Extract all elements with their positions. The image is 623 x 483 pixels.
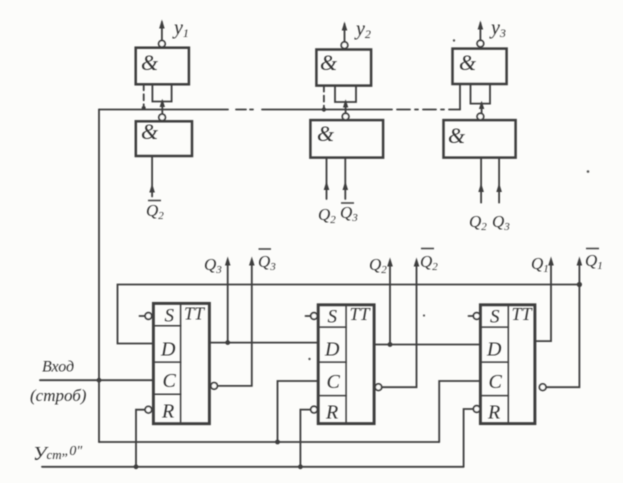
scan speck — [453, 39, 455, 41]
U8 S input bubble and stub — [311, 313, 318, 320]
arrowhead Q1 — [548, 257, 554, 266]
node: Q2 tap junction — [388, 342, 393, 347]
arrowhead y3 — [478, 21, 484, 30]
gate U5 output bubble — [342, 113, 349, 120]
gate U2 lower input notch (staple) — [335, 86, 356, 102]
wire: C input FF2 drop — [278, 381, 319, 442]
gate U1 output bubble — [159, 41, 166, 48]
wire: strobe input to U3 (end of top rail) — [459, 84, 461, 110]
arrowhead y2 — [342, 22, 348, 31]
wire: y2 output arrow — [344, 24, 346, 42]
svg-text:S: S — [165, 306, 175, 327]
svg-text:Q1: Q1 — [585, 251, 603, 272]
arrowhead U5 input b — [343, 181, 349, 190]
gate U6 output bubble — [477, 113, 484, 120]
arrowhead U6 input b — [496, 183, 502, 192]
wire: U5 input Q̄3 — [344, 158, 346, 199]
wire: U6 input Q3 — [498, 158, 500, 203]
svg-text:R: R — [161, 401, 174, 423]
wire: Q3 net (FF1 Q output to FF2 D) — [209, 342, 318, 344]
wire: riser from U5 output into U2 — [345, 102, 347, 114]
svg-text:&: & — [448, 123, 466, 148]
node: strobe tee junction — [97, 378, 102, 383]
scan speck — [423, 314, 425, 316]
flip-flop U9 (TT, outputs Q1) — [480, 305, 535, 424]
arrowhead Q3 — [225, 257, 231, 266]
arrowhead Q̄1 — [577, 257, 583, 266]
node: U2 strobe junction — [322, 107, 326, 111]
wire: Q1 net from FF3 Q output — [535, 261, 551, 341]
wire: left vertical strobe bus — [98, 110, 100, 443]
svg-text:Q3: Q3 — [204, 255, 222, 276]
gate U4 lower AND (&) — [136, 121, 192, 156]
svg-text:Q3: Q3 — [258, 252, 276, 273]
wire: dashed strobe input to U1 — [143, 84, 145, 108]
svg-text:y1: y1 — [172, 17, 189, 40]
node: R2 junction on rail B — [298, 464, 303, 469]
gate U6 lower AND (&) — [444, 120, 516, 158]
U9 inverted output bubble — [539, 384, 546, 391]
svg-text:D: D — [324, 339, 340, 361]
svg-text:y2: y2 — [354, 18, 371, 41]
wire: U4 input Q̄2 — [151, 156, 153, 197]
arrowhead Q̄3 — [249, 257, 255, 266]
arrowhead U5 input a — [324, 181, 330, 190]
wire: dashed strobe input to U2 — [323, 86, 325, 110]
wire: C input FF3 riser from rail A — [439, 381, 480, 442]
svg-text:TT: TT — [184, 304, 206, 324]
node: U1 strobe junction — [142, 106, 146, 110]
wire: R input FF2 drop — [300, 410, 310, 467]
arrowhead into U3 — [479, 101, 484, 109]
node: R1 junction on rail B — [134, 464, 139, 469]
wire: Q3 riser — [227, 261, 229, 343]
arrowhead Q2 — [387, 258, 393, 267]
scan speck — [308, 358, 310, 360]
flip-flop U7 (TT, outputs Q3) — [153, 303, 209, 423]
svg-text:D: D — [486, 339, 502, 361]
svg-text:Вход: Вход — [42, 359, 74, 376]
wire: Q̄3 net from FF1 inverted output — [218, 261, 252, 386]
svg-text:Q3: Q3 — [492, 212, 510, 233]
U7 inverted output bubble — [211, 383, 218, 390]
U9 S input bubble and stub — [473, 313, 480, 320]
svg-text:y3: y3 — [489, 17, 506, 40]
wire: Q2 net (FF2 Q output to FF3 D) — [374, 344, 480, 346]
arrowhead U4 input — [149, 184, 155, 193]
svg-text:Q2: Q2 — [420, 252, 438, 273]
svg-text:C: C — [489, 371, 503, 393]
svg-text:TT: TT — [350, 304, 372, 324]
U9 R input bubble — [473, 406, 480, 413]
svg-text:D: D — [160, 339, 176, 361]
node: C2 junction on rail A — [275, 440, 280, 445]
svg-text:&: & — [141, 50, 159, 75]
node: Q3 tap junction — [225, 340, 230, 345]
gate U1 upper AND (&) — [136, 48, 189, 85]
wire: y3 output arrow — [479, 23, 481, 40]
svg-text:R: R — [325, 402, 338, 424]
gate U4 output bubble — [159, 114, 166, 121]
wire: Q2 riser — [389, 262, 391, 345]
svg-text:Q2: Q2 — [318, 205, 336, 226]
scan speck — [587, 170, 590, 173]
gate U1 lower input notch (staple) — [152, 84, 171, 101]
wire: Q̄2 net from FF2 inverted output — [382, 262, 417, 387]
gate U3 upper AND (&) — [453, 49, 507, 84]
svg-text:Уст„0": Уст„0" — [33, 443, 82, 465]
flip-flop U8 (TT, outputs Q2) — [318, 305, 374, 424]
U7 R input bubble — [145, 406, 152, 413]
wire: D feedback from Q̄1 to D of FF1 — [118, 285, 580, 344]
svg-text:S: S — [328, 307, 338, 328]
wire: y1 output arrow — [161, 22, 163, 41]
gate U2 upper AND (&) — [316, 50, 371, 86]
gate U2 output bubble — [341, 42, 348, 49]
svg-text:Q2: Q2 — [369, 255, 387, 276]
svg-text:&: & — [141, 119, 159, 144]
wire: R input FF1 drop — [136, 410, 145, 467]
svg-text:Q1: Q1 — [531, 254, 549, 275]
node: feedback junction on Q̄1 riser — [577, 282, 582, 287]
wire: reset rail Уст.0 (line B) — [42, 466, 464, 468]
wire: riser from U4 output into U1 — [161, 101, 163, 114]
svg-text:C: C — [327, 371, 341, 393]
U8 inverted output bubble — [375, 384, 382, 391]
svg-text:Q2: Q2 — [146, 201, 164, 222]
arrowhead into U1 — [160, 99, 165, 107]
wire: U6 input Q2 — [480, 158, 482, 203]
arrowhead U6 input a — [478, 183, 484, 192]
svg-text:Q2: Q2 — [469, 212, 487, 233]
gate U3 lower input notch (staple) — [471, 84, 491, 104]
wire: strobe input line (Вход) — [40, 379, 153, 381]
svg-text:(строб): (строб) — [30, 386, 87, 405]
arrowhead into U2 — [343, 99, 348, 107]
gate U5 lower AND (&) — [310, 120, 383, 158]
arrowhead y1 — [159, 20, 165, 29]
gate U3 output bubble — [477, 40, 484, 47]
arrowhead Q̄2 — [414, 258, 420, 267]
svg-text:R: R — [487, 402, 500, 424]
U7 S input bubble and stub — [145, 313, 152, 320]
svg-text:TT: TT — [512, 304, 534, 324]
U8 R input bubble — [311, 406, 318, 413]
wire: Q̄1 net from FF3 inverted output — [546, 261, 579, 387]
svg-text:S: S — [490, 307, 500, 328]
wire: lower strobe rail (line A) — [99, 441, 439, 443]
svg-text:&: & — [459, 50, 477, 75]
wire: strobe top distribution horizontal — [99, 109, 460, 111]
svg-text:&: & — [320, 50, 338, 75]
svg-text:&: & — [317, 121, 335, 146]
wire: U5 input Q2 — [326, 158, 328, 199]
wire: riser from U6 output into U3 — [481, 103, 483, 113]
svg-text:Q3: Q3 — [340, 203, 358, 224]
svg-text:C: C — [163, 370, 177, 392]
wire: R input FF3 riser from rail B — [464, 409, 474, 467]
